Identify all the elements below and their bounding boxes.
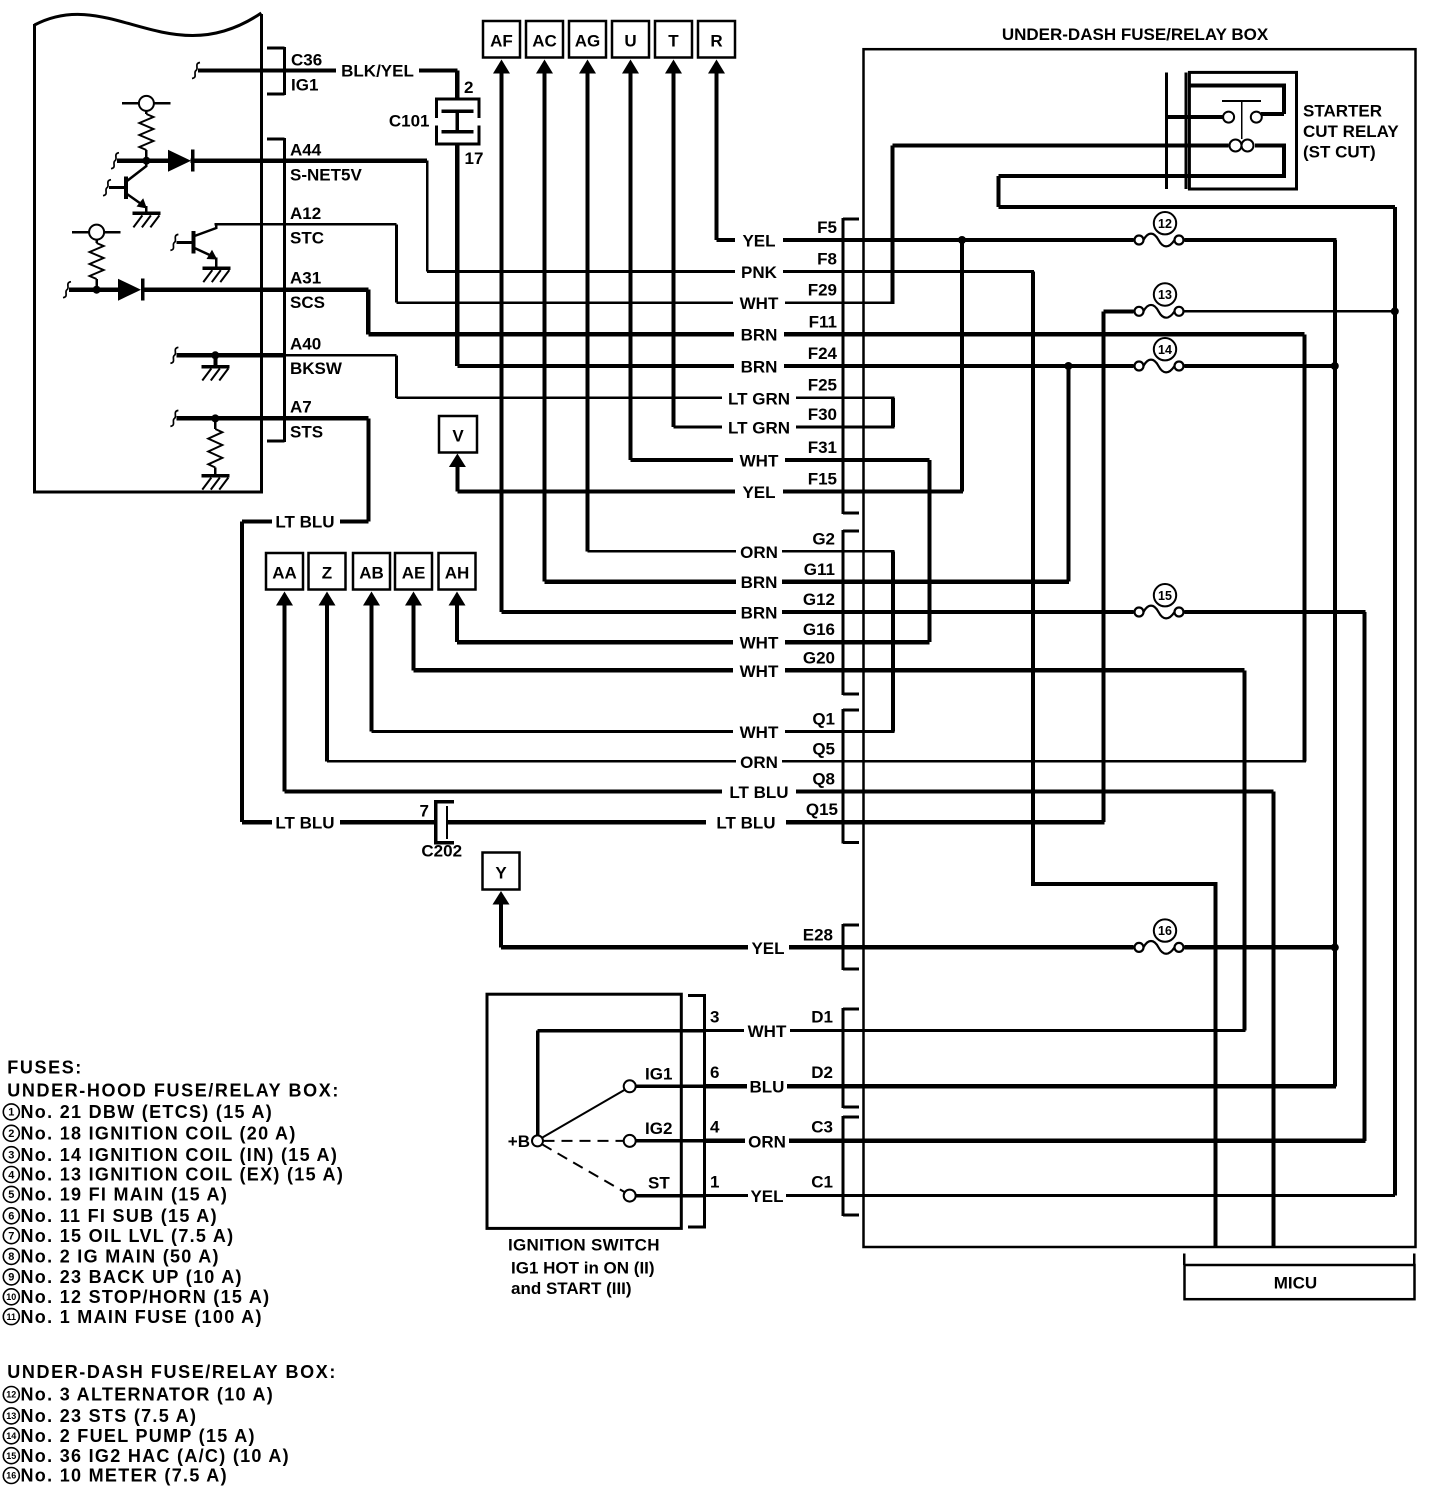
diode on A31 line (118, 279, 144, 301)
svg-text:F24: F24 (808, 344, 838, 363)
wire WHT/G20 row (414, 668, 1245, 672)
svg-text:No. 13 IGNITION COIL (EX) (15: No. 13 IGNITION COIL (EX) (15 A) (21, 1165, 345, 1185)
ground (BKSW) (201, 355, 229, 380)
legend fuse 3 (3, 1145, 338, 1165)
label LT GRN F30 (728, 405, 837, 438)
arrow box AA (266, 553, 303, 606)
svg-text:2: 2 (464, 78, 473, 97)
svg-text:17: 17 (465, 149, 484, 168)
svg-text:13: 13 (6, 1411, 16, 1421)
svg-text:LT BLU: LT BLU (275, 513, 334, 532)
svg-text:F5: F5 (817, 218, 837, 237)
node +B (508, 1132, 543, 1151)
svg-text:No. 36 IG2 HAC (A/C) (10 A): No. 36 IG2 HAC (A/C) (10 A) (21, 1446, 290, 1466)
label 6 BLU D2 (710, 1063, 833, 1097)
svg-text:LT GRN: LT GRN (728, 390, 790, 409)
svg-text:Z: Z (322, 564, 332, 583)
legend fuse 15 (3, 1446, 290, 1466)
svg-text:2: 2 (8, 1128, 14, 1140)
junction dot F24/G11 riser (1064, 362, 1072, 370)
label ORN Q5 (740, 740, 835, 773)
svg-text:F8: F8 (817, 250, 837, 269)
svg-text:No. 12 STOP/HORN (15 A): No. 12 STOP/HORN (15 A) (21, 1287, 271, 1307)
svg-text:UNDER-HOOD FUSE/RELAY BOX:: UNDER-HOOD FUSE/RELAY BOX: (7, 1081, 340, 1101)
transistor Q1 (S-NET5V driver) (103, 161, 148, 214)
wire AF stem to G12 (500, 73, 504, 612)
svg-text:YEL: YEL (750, 1187, 783, 1206)
svg-text:No. 15 OIL LVL (7.5 A): No. 15 OIL LVL (7.5 A) (21, 1226, 235, 1246)
svg-text:UNDER-DASH FUSE/RELAY BOX: UNDER-DASH FUSE/RELAY BOX (1002, 25, 1269, 44)
wire YEL/F5 row (717, 238, 1134, 242)
svg-text:AH: AH (445, 564, 470, 583)
svg-text:AC: AC (532, 32, 557, 51)
svg-text:14: 14 (1158, 343, 1172, 357)
legend fuse 5 (3, 1185, 228, 1205)
wire YEL/E28 row (501, 945, 1134, 949)
svg-text:G2: G2 (812, 530, 835, 549)
svg-text:F30: F30 (808, 405, 837, 424)
arrow box AE (395, 553, 432, 606)
svg-text:7: 7 (420, 802, 429, 821)
wire WHT/D1 row (705, 1029, 1246, 1032)
svg-text:Q5: Q5 (812, 740, 835, 759)
wire BLK/YEL C36 to C101 (285, 68, 460, 99)
switch dashed +B to IG2 (544, 1140, 624, 1142)
wire A7 to LT BLU (366, 418, 370, 521)
label WHT F31 (740, 438, 837, 471)
svg-text:PNK: PNK (741, 263, 778, 282)
svg-text:YEL: YEL (742, 232, 775, 251)
svg-text:IG1: IG1 (645, 1065, 672, 1084)
svg-text:G16: G16 (803, 620, 835, 639)
legend fuse 16 (3, 1466, 228, 1486)
svg-text:WHT: WHT (748, 1022, 787, 1041)
svg-text:ORN: ORN (748, 1133, 786, 1152)
legend fuse 13 (3, 1406, 197, 1426)
legend fuse 14 (3, 1426, 256, 1446)
fuse 15 (No.36 IG2 HAC) (1135, 584, 1184, 618)
label A12 STC (290, 204, 324, 248)
svg-text:F11: F11 (809, 313, 837, 332)
label LT BLU (left of C202) (275, 814, 334, 833)
label C202 pin 7 (420, 802, 429, 821)
label IG2 (645, 1119, 672, 1138)
wire A7/STS row inside ECM (170, 410, 368, 426)
svg-text:No. 23 STS (7.5 A): No. 23 STS (7.5 A) (21, 1406, 198, 1426)
svg-text:AE: AE (402, 564, 426, 583)
wire relay coil to output (997, 144, 1395, 209)
MICU connector ticks (1183, 1253, 1416, 1265)
wire A40 to LT GRN/F25 (395, 355, 398, 398)
label YEL F5 (742, 218, 837, 251)
MICU box (1185, 1265, 1415, 1299)
label A44 S-NET5V (290, 141, 362, 185)
wire ORN/C3 row (705, 1139, 1366, 1143)
wire Q8 to MICU (vertical) (1272, 792, 1276, 1247)
svg-text:BLU: BLU (750, 1078, 785, 1097)
relay contact left (1223, 112, 1234, 123)
junction dot fuse13/relay line (1391, 307, 1399, 315)
svg-text:STC: STC (290, 229, 324, 248)
svg-text:UNDER-DASH FUSE/RELAY BOX:: UNDER-DASH FUSE/RELAY BOX: (7, 1362, 337, 1382)
svg-text:T: T (668, 32, 679, 51)
wire BRN/F24 row (457, 364, 1133, 368)
connector bracket (starter cut relay) (1165, 72, 1188, 189)
switch contact IG2 (624, 1135, 636, 1147)
svg-text:WHT: WHT (740, 452, 779, 471)
wire BRN/G12 row (502, 610, 1134, 614)
node dot on A40 line (211, 351, 219, 359)
svg-text:IG1 HOT in ON (II): IG1 HOT in ON (II) (511, 1259, 655, 1278)
legend heading UNDER-HOOD FUSE/RELAY BOX: (7, 1081, 340, 1101)
legend fuse 11 (3, 1307, 262, 1327)
connector bracket A (ECM) (267, 138, 286, 443)
arrow box AH (439, 553, 476, 606)
wire WHT/Q1 row (372, 730, 895, 733)
label PNK F8 (741, 250, 837, 283)
svg-text:SCS: SCS (290, 293, 325, 312)
wire C101 to F24 row (455, 144, 459, 366)
svg-text:1: 1 (8, 1107, 14, 1119)
svg-text:AB: AB (359, 564, 384, 583)
label C202 (421, 842, 462, 861)
svg-text:Y: Y (495, 864, 507, 883)
relay switch bar (1222, 100, 1261, 102)
svg-text:LT BLU: LT BLU (729, 783, 788, 802)
svg-text:8: 8 (8, 1251, 14, 1263)
arrow box V (439, 416, 477, 467)
svg-text:BRN: BRN (741, 604, 778, 623)
wire relay output to C1 (vertical) (1393, 207, 1397, 1196)
svg-text:CUT RELAY: CUT RELAY (1303, 122, 1399, 141)
legend fuse 10 (3, 1287, 270, 1307)
label LT BLU (upper) (275, 513, 334, 532)
svg-text:BKSW: BKSW (290, 359, 343, 378)
label C36 / IG1 (291, 51, 322, 95)
relay armature link (1241, 101, 1243, 139)
label YEL E28 (751, 926, 833, 959)
resistor (pull-up, S-NET5V) (139, 114, 153, 150)
label 3 WHT D1 (710, 1008, 833, 1042)
svg-text:7: 7 (8, 1231, 14, 1243)
svg-text:No. 14 IGNITION COIL (IN) (15: No. 14 IGNITION COIL (IN) (15 A) (21, 1145, 339, 1165)
svg-text:LT BLU: LT BLU (716, 814, 775, 833)
wire WHT/F31 row (631, 458, 930, 462)
svg-text:LT BLU: LT BLU (275, 814, 334, 833)
svg-text:D1: D1 (811, 1008, 833, 1027)
arrow box Y (483, 853, 520, 905)
connector bracket G (fuse box) (842, 530, 860, 696)
svg-text:V: V (452, 427, 464, 446)
connector bracket E (fuse box) (842, 924, 860, 971)
svg-text:STS: STS (290, 423, 323, 442)
wire fuse15 output (1185, 610, 1366, 614)
svg-text:A31: A31 (290, 269, 321, 288)
connector C202 (434, 800, 454, 845)
wire G2 to Q1 (891, 551, 895, 731)
svg-text:3: 3 (8, 1150, 14, 1162)
wire AE stem to G20 (412, 605, 416, 670)
connector C101 (435, 98, 481, 146)
wire LT BLU/Q15 row (242, 820, 1105, 824)
legend fuse 2 (3, 1124, 296, 1144)
label BRN F11 (741, 313, 837, 345)
svg-text:U: U (624, 32, 636, 51)
connector bracket (ignition switch) (688, 994, 706, 1228)
wire BRN/G11 row (545, 580, 1070, 584)
svg-text:WHT: WHT (740, 723, 779, 742)
wire AA stem to Q8 (283, 605, 287, 792)
arrow box T (655, 21, 692, 74)
wire LT GRN/F30 row (674, 426, 895, 429)
label WHT F29 (740, 281, 837, 314)
arrow box U (612, 21, 649, 74)
pull-up supply node (circle) for S-NET5V (122, 96, 171, 114)
svg-text:12: 12 (1158, 217, 1172, 231)
switch dashed +B to ST (542, 1144, 624, 1192)
wire A44 row inside ECM (111, 153, 427, 169)
arrow box AB (353, 553, 390, 606)
wire LT BLU upper row (242, 520, 368, 524)
svg-text:A44: A44 (290, 141, 322, 160)
svg-text:16: 16 (6, 1471, 16, 1481)
arrow box AF (483, 21, 520, 74)
wire AB stem to Q1 (370, 605, 374, 732)
svg-text:No. 1 MAIN FUSE (100 A): No. 1 MAIN FUSE (100 A) (21, 1307, 263, 1327)
wire F8 to MICU (1031, 272, 1218, 1247)
svg-text:AG: AG (575, 32, 601, 51)
svg-text:MICU: MICU (1274, 1274, 1317, 1293)
svg-text:No. 19 FI MAIN (15 A): No. 19 FI MAIN (15 A) (21, 1185, 229, 1205)
svg-text:No. 21 DBW (ETCS) (15 A): No. 21 DBW (ETCS) (15 A) (21, 1102, 274, 1122)
label BRN F24 (741, 344, 838, 377)
svg-text:C3: C3 (811, 1118, 833, 1137)
label C101 pin 17 (465, 149, 484, 168)
legend fuse 9 (3, 1267, 243, 1287)
wire fuse12 to D2 (vertical) (1333, 240, 1337, 1086)
label LT BLU Q15 (716, 800, 838, 833)
wire fuse13 output (thin) (1185, 310, 1395, 312)
junction dot F5 branch (958, 236, 966, 244)
wire IG2 to pin 4 (636, 1139, 705, 1143)
svg-text:No. 3 ALTERNATOR (10 A): No. 3 ALTERNATOR (10 A) (21, 1385, 275, 1405)
wire BLU/D2 row (705, 1084, 1336, 1088)
wire R stem to F5 (715, 73, 719, 240)
legend fuse 12 (3, 1385, 274, 1405)
svg-text:4: 4 (8, 1169, 15, 1181)
svg-text:13: 13 (1158, 288, 1172, 302)
label BRN G11 (741, 560, 835, 592)
label WHT G20 (740, 649, 835, 682)
svg-text:WHT: WHT (740, 634, 779, 653)
label BLK/YEL (341, 62, 414, 81)
connector bracket C (fuse box) (842, 1116, 860, 1217)
label IGNITION SWITCH (508, 1236, 660, 1255)
svg-text:No. 11 FI SUB (15 A): No. 11 FI SUB (15 A) (21, 1206, 218, 1226)
svg-text:G12: G12 (803, 590, 835, 609)
wire F31 to G16 (927, 460, 931, 642)
svg-text:6: 6 (710, 1063, 719, 1082)
svg-text:C1: C1 (811, 1173, 833, 1192)
svg-text:BRN: BRN (741, 358, 778, 377)
svg-text:No. 2 FUEL PUMP (15 A): No. 2 FUEL PUMP (15 A) (21, 1426, 256, 1446)
wire A12 to WHT/F29 (395, 224, 398, 302)
wire +B to pin 3 (536, 1029, 705, 1136)
svg-text:G11: G11 (804, 560, 835, 579)
svg-text:IG1: IG1 (291, 76, 318, 95)
svg-text:F15: F15 (808, 470, 837, 489)
wire V stem to F15 (455, 467, 459, 492)
wire AH stem to G16 (455, 605, 459, 642)
pull-up supply node (circle) for SCS (72, 225, 121, 243)
junction dot fuse14/fuse12 line (1331, 362, 1339, 370)
wire LT GRN/F25 row (397, 397, 895, 400)
svg-text:STARTER: STARTER (1303, 102, 1382, 121)
legend fuse 8 (3, 1247, 220, 1267)
wire relay coil feed (892, 144, 1228, 148)
svg-text:BRN: BRN (741, 326, 778, 345)
ground (Q1 emitter) (132, 212, 160, 228)
svg-text:5: 5 (8, 1189, 14, 1201)
svg-text:IGNITION SWITCH: IGNITION SWITCH (508, 1236, 660, 1255)
svg-text:F31: F31 (808, 438, 837, 457)
svg-text:F29: F29 (808, 281, 837, 300)
resistor (STS pulldown) (208, 429, 222, 468)
wire F11 to Q5 (vertical) (1303, 334, 1307, 761)
fuse 13 (No.23 STS) (1135, 283, 1184, 317)
svg-text:A40: A40 (290, 335, 321, 354)
svg-text:YEL: YEL (751, 939, 784, 958)
svg-text:S-NET5V: S-NET5V (290, 166, 362, 185)
svg-text:IG2: IG2 (645, 1119, 672, 1138)
svg-text:LT GRN: LT GRN (728, 419, 790, 438)
wire C36/IG1 row inside ECM (192, 63, 285, 79)
fuse 16 (No.10 METER) (1135, 919, 1184, 953)
wire A31 to BRN/F11 (366, 290, 370, 335)
switch contact ST (624, 1190, 636, 1202)
label LT GRN F25 (728, 376, 837, 409)
relay switch upper loop (1189, 84, 1286, 116)
arrow box AG (569, 21, 606, 74)
fuse 14 (No.2 FUEL PUMP) (1135, 338, 1184, 372)
ECM/PCM box (wavy-top module outline) (33, 13, 263, 494)
svg-text:No. 2 IG MAIN (50 A): No. 2 IG MAIN (50 A) (21, 1247, 220, 1267)
svg-text:BLK/YEL: BLK/YEL (341, 62, 414, 81)
svg-text:14: 14 (6, 1431, 16, 1441)
arrow box Z (309, 553, 346, 606)
svg-text:FUSES:: FUSES: (7, 1058, 83, 1078)
arrow box R (698, 21, 735, 74)
svg-text:AF: AF (490, 32, 513, 51)
svg-text:16: 16 (1158, 924, 1172, 938)
label WHT Q1 (740, 710, 835, 743)
svg-text:6: 6 (8, 1211, 14, 1223)
label STARTER CUT RELAY (ST CUT) (1303, 102, 1399, 162)
wire resistor to A44 node (145, 150, 148, 161)
node dot on A31 line (93, 286, 101, 294)
UNDER-DASH FUSE/RELAY BOX outline (864, 49, 1416, 1247)
node dot on A7 line (211, 414, 219, 422)
svg-text:10: 10 (6, 1292, 16, 1302)
wire T stem to F30 (672, 73, 676, 427)
svg-text:1: 1 (710, 1173, 719, 1192)
svg-text:BRN: BRN (741, 573, 778, 592)
wire F5 to F15 (vertical) (960, 240, 964, 492)
wire IG1 to pin 6 (636, 1085, 705, 1089)
wire fuse13 left to Q15 vertical (1103, 309, 1133, 313)
wire AG stem to G2 (586, 73, 590, 551)
svg-text:E28: E28 (803, 926, 833, 945)
svg-text:F25: F25 (808, 376, 837, 395)
label A40 BKSW (290, 335, 343, 379)
connector bracket F (fuse box) (842, 218, 860, 515)
svg-text:11: 11 (7, 1312, 17, 1322)
label and START (III) (511, 1279, 632, 1298)
label MICU (1274, 1274, 1317, 1293)
node dot on A44 line (142, 157, 150, 165)
wire resistor to ground (214, 468, 217, 476)
label ORN G2 (740, 530, 835, 563)
ground (Q2 emitter) (202, 266, 230, 282)
relay coil (1230, 140, 1254, 152)
svg-text:Q15: Q15 (806, 800, 838, 819)
svg-text:12: 12 (6, 1390, 16, 1400)
legend fuse 6 (3, 1206, 218, 1226)
wire fuse14 output (1185, 364, 1337, 368)
svg-text:A7: A7 (290, 398, 312, 417)
svg-text:AA: AA (272, 564, 297, 583)
svg-text:R: R (710, 32, 722, 51)
svg-text:Q1: Q1 (812, 710, 835, 729)
wire relay to F29 (vertical) (890, 146, 894, 303)
label ST (648, 1174, 670, 1193)
svg-text:3: 3 (710, 1008, 719, 1027)
legend fuse 7 (3, 1226, 234, 1246)
IGNITION SWITCH box (487, 994, 681, 1228)
relay contact right (1251, 112, 1262, 123)
wire A40/BKSW row inside ECM (170, 347, 396, 363)
transistor Q2 (STC driver) (170, 224, 217, 268)
switch contact IG1 (624, 1080, 636, 1092)
wire ORN/Q5 row (327, 760, 1306, 763)
svg-text:G20: G20 (803, 649, 835, 668)
svg-text:No. 10 METER (7.5 A): No. 10 METER (7.5 A) (21, 1466, 228, 1486)
wire fuse15 to C3 (vertical) (1362, 612, 1366, 1141)
svg-text:15: 15 (6, 1451, 16, 1461)
svg-text:and START (III): and START (III) (511, 1279, 632, 1298)
label C101 pin 2 (464, 78, 473, 97)
svg-text:WHT: WHT (740, 662, 779, 681)
wire dot to resistor (214, 418, 217, 429)
legend fuse 4 (3, 1165, 344, 1185)
connector bracket D (fuse box) (842, 1008, 860, 1109)
fuse 12 (No.3 ALTERNATOR) (1135, 212, 1184, 246)
svg-text:ORN: ORN (740, 753, 778, 772)
label 4 ORN C3 (710, 1118, 833, 1152)
diode on A44 line (168, 150, 194, 172)
wire A31 row inside ECM (63, 282, 368, 298)
svg-text:C101: C101 (389, 112, 430, 131)
label WHT G16 (740, 620, 835, 653)
svg-text:A12: A12 (290, 204, 321, 223)
legend heading FUSES: (7, 1058, 83, 1078)
wire YEL/C1 row (705, 1194, 1395, 1197)
wire WHT/F29 row (397, 301, 895, 304)
svg-text:4: 4 (710, 1118, 720, 1137)
junction dot fuse16/fuse12 line (1331, 943, 1339, 951)
wire LT BLU left vertical (240, 522, 244, 823)
wire relay contact to connector (1167, 115, 1224, 119)
